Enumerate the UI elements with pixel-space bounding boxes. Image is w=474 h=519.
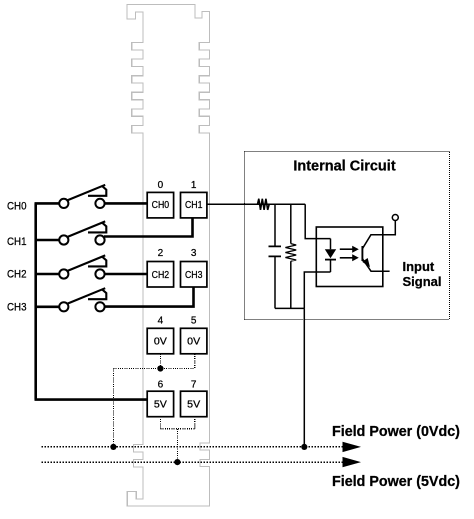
svg-text:CH3: CH3 bbox=[7, 302, 27, 314]
wire: 5V feed horizontal bbox=[35, 398, 148, 401]
terminal box 0 CH0 bbox=[147, 192, 173, 218]
svg-text:CH1: CH1 bbox=[7, 236, 27, 248]
transistor Q1 collector bbox=[362, 221, 395, 249]
terminal box 3 CH3 bbox=[181, 262, 207, 288]
internal circuit dotted box bbox=[244, 151, 449, 319]
switch SW0 contact circles bbox=[59, 199, 68, 208]
svg-text:5: 5 bbox=[191, 316, 197, 327]
svg-text:5V: 5V bbox=[187, 400, 200, 411]
switch SW3 bbox=[67, 288, 106, 304]
op-amp U1 optocoupler box bbox=[316, 227, 383, 287]
collector terminal circle bbox=[392, 215, 398, 221]
wire: internal bottom rail bbox=[275, 307, 304, 309]
svg-text:Field Power (0Vdc): Field Power (0Vdc) bbox=[332, 424, 460, 440]
terminal box 2 CH2 bbox=[147, 262, 173, 288]
svg-text:0: 0 bbox=[158, 180, 164, 191]
light arrow 2 bbox=[340, 257, 353, 259]
capacitor C1 plates bbox=[269, 246, 282, 256]
capacitor C1 top lead bbox=[274, 204, 276, 246]
svg-text:Signal: Signal bbox=[403, 274, 442, 289]
resistor R1 series zigzag bbox=[258, 199, 270, 210]
svg-text:CH0: CH0 bbox=[7, 201, 27, 213]
svg-text:0V: 0V bbox=[154, 337, 167, 348]
switch SW1 contact circles bbox=[59, 235, 68, 244]
wire: CH0 switch to terminal 0 bbox=[105, 202, 148, 205]
wire: bus to CH3 switch bbox=[35, 305, 59, 308]
wire: left 5V bus vertical bbox=[34, 203, 37, 399]
capacitor C1 bottom lead bbox=[274, 256, 276, 308]
terminal box 5 0V bbox=[181, 328, 207, 354]
switch SW2 contact circles bbox=[59, 269, 68, 278]
transistor Q1 base bbox=[361, 246, 363, 261]
svg-text:0V: 0V bbox=[187, 337, 200, 348]
switch SW3 contact circles bbox=[59, 302, 68, 311]
svg-text:Internal Circuit: Internal Circuit bbox=[293, 159, 395, 175]
terminal box 7 5V bbox=[181, 391, 207, 417]
resistor R2 top lead bbox=[290, 204, 292, 243]
wire: bus to CH1 switch bbox=[35, 239, 59, 242]
svg-text:Input: Input bbox=[403, 259, 435, 274]
wire: terminal 1 to internal circuit rail bbox=[207, 203, 305, 205]
svg-text:5V: 5V bbox=[154, 400, 167, 411]
svg-text:CH0: CH0 bbox=[152, 200, 170, 211]
wire: CH3 switch to terminal 3 bbox=[105, 287, 194, 307]
terminal box 1 CH1 bbox=[181, 192, 207, 218]
svg-text:2: 2 bbox=[158, 248, 164, 259]
terminal box 4 0V bbox=[147, 328, 173, 354]
LED D1 cathode lead bbox=[330, 260, 332, 272]
module outline bbox=[127, 5, 210, 506]
junction: internal circuit to 0Vdc line bbox=[301, 444, 307, 450]
transistor Q1 emitter arrow bbox=[362, 258, 370, 267]
transistor Q1 emitter bbox=[362, 259, 389, 272]
svg-text:Field Power (5Vdc): Field Power (5Vdc) bbox=[332, 474, 460, 490]
svg-text:CH2: CH2 bbox=[152, 270, 170, 281]
junction 0V bridge bbox=[157, 365, 163, 371]
wire: bus to CH2 switch bbox=[35, 273, 59, 276]
switch SW1 bbox=[67, 221, 106, 237]
svg-text:CH3: CH3 bbox=[185, 270, 203, 281]
switch SW2 bbox=[67, 255, 106, 271]
svg-text:4: 4 bbox=[158, 316, 164, 327]
field power 0Vdc dotted line bbox=[42, 446, 344, 448]
resistor R2 zigzag bbox=[285, 244, 296, 262]
svg-text:3: 3 bbox=[191, 248, 197, 259]
LED D1 cathode bar bbox=[325, 259, 336, 261]
svg-text:1: 1 bbox=[191, 180, 197, 191]
light arrow 1 bbox=[340, 248, 353, 250]
wire: anode drop to opto bbox=[305, 204, 330, 238]
terminal box 6 5V bbox=[147, 391, 173, 417]
junction: 5V jumper to 5Vdc line bbox=[174, 459, 180, 465]
switch SW0 bbox=[67, 185, 106, 201]
svg-text:7: 7 bbox=[191, 380, 197, 391]
wire: CH2 switch to terminal 2 bbox=[105, 273, 148, 276]
dotted jumper: 0V terminals bbox=[113, 354, 194, 447]
wire: CH1 switch to terminal 1 bbox=[104, 218, 193, 237]
wire: cathode return bbox=[304, 272, 330, 308]
svg-text:CH1: CH1 bbox=[185, 200, 203, 211]
wire: internal circuit to field power 0Vdc bbox=[303, 308, 305, 447]
wire: bus to CH0 switch bbox=[35, 202, 59, 205]
svg-text:CH2: CH2 bbox=[7, 269, 27, 281]
dotted jumper: 5V terminals bbox=[160, 417, 194, 462]
LED D1 triangle bbox=[325, 249, 336, 258]
resistor R2 bottom lead bbox=[290, 261, 292, 308]
field power 5Vdc dotted line bbox=[42, 461, 344, 463]
LED D1 anode lead bbox=[330, 239, 332, 250]
svg-text:6: 6 bbox=[158, 380, 164, 391]
junction: 0V jumper to 0Vdc line bbox=[110, 444, 116, 450]
